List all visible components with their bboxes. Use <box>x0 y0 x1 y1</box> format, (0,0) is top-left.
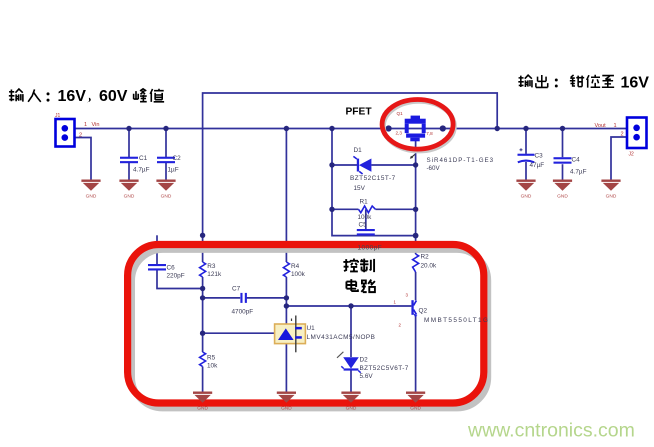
label R1 C5 values <box>358 199 373 229</box>
capacitor C3 (polarized) <box>518 148 535 162</box>
svg-text:R1: R1 <box>360 199 369 206</box>
svg-text:1: 1 <box>394 300 397 305</box>
svg-text:PFET: PFET <box>346 107 373 118</box>
ground GND D2 <box>341 392 360 412</box>
svg-text:16V: 16V <box>58 88 87 105</box>
ground GND C4 <box>553 180 572 200</box>
svg-text:47µF: 47µF <box>530 162 545 169</box>
svg-text:2: 2 <box>79 132 82 138</box>
title 输出: 钳位至 16V <box>518 75 649 92</box>
ground GND U1 <box>277 392 296 412</box>
label 控制 电路 control circuit <box>343 258 375 292</box>
wire: C2 branch <box>165 129 167 181</box>
svg-text:Q2: Q2 <box>419 307 428 314</box>
svg-text:J2: J2 <box>629 152 635 158</box>
label C7 value <box>232 285 254 315</box>
resistor R4 (vertical zigzag) <box>283 262 289 277</box>
label C6 value <box>167 264 185 279</box>
wire: C4 branch <box>562 129 564 181</box>
connector J2 <box>627 118 647 149</box>
title 输入: 16V, 60V 峰值 <box>9 88 164 105</box>
label C2 value <box>168 155 182 174</box>
svg-text:60V: 60V <box>99 88 128 105</box>
svg-text:2: 2 <box>621 131 624 137</box>
svg-text:20.0k: 20.0k <box>421 262 437 269</box>
wire: U1 to Q2 base row <box>286 305 411 307</box>
label PFET part number <box>427 157 495 172</box>
wire: J2 pin2 to GND <box>611 137 627 180</box>
connector J1 <box>56 119 75 147</box>
label C3 value <box>530 153 545 169</box>
ground GND C1 <box>119 180 138 200</box>
red rounded box 控制电路 <box>128 245 484 404</box>
svg-text:Q1: Q1 <box>397 111 404 116</box>
ground GND J2 <box>601 180 620 200</box>
resistor R2 (vertical zigzag) <box>413 254 419 272</box>
label Q1 pins <box>396 111 434 136</box>
ground GND C2 <box>156 180 175 200</box>
svg-text:LMV431ACM5/NOPB: LMV431ACM5/NOPB <box>307 334 376 341</box>
ground GND R5 <box>193 392 212 412</box>
capacitor C2 <box>157 157 175 164</box>
svg-text:R3: R3 <box>207 263 216 270</box>
wire: D2 branch <box>350 306 352 392</box>
svg-text:-60V: -60V <box>427 165 441 172</box>
svg-text:10k: 10k <box>207 362 218 369</box>
diode D1 zener <box>353 156 371 174</box>
svg-text:1µF: 1µF <box>168 166 179 173</box>
svg-text:SiR461DP-T1-GE3: SiR461DP-T1-GE3 <box>427 157 495 164</box>
svg-text:www.cntronics.com: www.cntronics.com <box>467 420 635 442</box>
svg-text:R5: R5 <box>207 354 216 361</box>
wire: C1 branch <box>128 129 130 181</box>
svg-text:1000pF: 1000pF <box>358 245 383 252</box>
label C1 value <box>133 155 150 174</box>
svg-text:U1: U1 <box>307 325 316 332</box>
svg-text:1: 1 <box>614 123 617 129</box>
wire: U1 ref row <box>203 332 277 334</box>
svg-text:R4: R4 <box>291 263 300 270</box>
svg-text:100k: 100k <box>291 271 306 278</box>
svg-text:100k: 100k <box>358 214 373 221</box>
label Q2 part <box>419 307 490 323</box>
junction dots on rail <box>126 125 565 131</box>
PFET gate pin marker <box>410 154 415 159</box>
wire: left control vertical R3/R5 <box>202 235 204 391</box>
wire: D1 ladder left vertical <box>332 129 416 236</box>
diode D2 zener to GND <box>337 352 361 373</box>
label R2 value <box>421 253 437 269</box>
capacitor C1 <box>120 157 138 164</box>
svg-text:15V: 15V <box>354 185 366 192</box>
wire: PFET gate vertical to R2 <box>415 141 417 255</box>
svg-text:C6: C6 <box>167 264 176 271</box>
label U1 part <box>307 325 376 341</box>
capacitor C6 <box>148 264 166 271</box>
svg-text:BZT52C15T-7: BZT52C15T-7 <box>350 175 396 182</box>
resistor R5 (vertical zigzag) <box>200 352 206 367</box>
svg-text:D2: D2 <box>360 356 369 363</box>
svg-text:D1: D1 <box>354 147 363 154</box>
svg-text:2: 2 <box>399 322 402 327</box>
wire: U1 cathode/anode vertical <box>285 306 287 392</box>
label R5 value <box>207 354 218 369</box>
svg-text:BZT52C5V6T-7: BZT52C5V6T-7 <box>360 365 409 372</box>
capacitor C7 (horizontal) <box>240 293 247 303</box>
ground GND Q2 <box>406 392 425 412</box>
junction dots in ladder and control <box>200 162 419 336</box>
label R4 value <box>291 263 306 278</box>
transistor Q1 PFET symbol <box>405 116 426 142</box>
wire: C7 row <box>203 297 287 299</box>
svg-text:MMBT5550LT1G: MMBT5550LT1G <box>424 317 489 324</box>
ground GND C3 <box>516 180 535 200</box>
wire: C5 stub <box>365 209 367 235</box>
svg-text:3: 3 <box>406 292 409 297</box>
wire: Q2 emitter to GND <box>415 315 417 392</box>
svg-text:R2: R2 <box>421 253 430 260</box>
svg-text:4.7µF: 4.7µF <box>133 166 150 173</box>
svg-text:C3: C3 <box>535 153 544 160</box>
svg-text:J1: J1 <box>55 113 61 119</box>
label D1 value <box>350 147 396 192</box>
resistor R3 (vertical zigzag) <box>200 262 206 277</box>
svg-text:121k: 121k <box>207 271 222 278</box>
svg-text:1: 1 <box>84 122 87 128</box>
svg-text:Vin: Vin <box>92 122 100 128</box>
label J1 Vin pins <box>55 113 99 138</box>
capacitor C4 <box>554 157 572 164</box>
transistor Q2 NPN <box>411 300 417 317</box>
wire: main input/output rail Vin-PFET-Vout <box>75 128 630 130</box>
svg-text:16V: 16V <box>621 75 650 92</box>
wire: R2 to Q2 collector <box>415 272 417 300</box>
svg-text:Vout: Vout <box>595 123 607 129</box>
svg-text:C5: C5 <box>359 221 368 228</box>
svg-text:C4: C4 <box>572 157 581 164</box>
label C4 value <box>570 157 587 176</box>
svg-text:C1: C1 <box>139 155 148 162</box>
svg-text:C2: C2 <box>173 155 182 162</box>
wire: J1 pin2 to GND <box>75 138 92 181</box>
svg-text:2,3: 2,3 <box>396 131 403 136</box>
label R3 value <box>207 263 222 278</box>
svg-text:5.6V: 5.6V <box>360 373 374 380</box>
svg-text:C7: C7 <box>232 285 241 292</box>
wire: D1 row <box>332 164 416 166</box>
red ellipse highlight around PFET <box>382 100 454 152</box>
svg-text:220pF: 220pF <box>167 272 185 279</box>
resistor R1 (horizontal zigzag) <box>359 206 376 213</box>
svg-text:7,8: 7,8 <box>426 131 433 136</box>
wire: output sense line top <box>203 93 498 235</box>
wire: C3 branch <box>525 129 527 181</box>
label Q2 pins <box>394 292 409 327</box>
svg-text:4.7µF: 4.7µF <box>570 169 587 176</box>
svg-text:4700pF: 4700pF <box>232 308 254 315</box>
wire: R4 vertical <box>285 129 287 307</box>
wire: R1 row <box>332 208 416 210</box>
op-amp U1 shunt regulator LMV431 <box>275 316 306 353</box>
wire: C6 branch and bottom link <box>157 235 203 288</box>
label D2 value <box>360 356 409 380</box>
capacitor C5 <box>357 229 375 236</box>
red rounded box shadow <box>132 250 488 409</box>
label J2 Vout pins <box>595 123 635 158</box>
ground GND J1 <box>81 180 100 200</box>
